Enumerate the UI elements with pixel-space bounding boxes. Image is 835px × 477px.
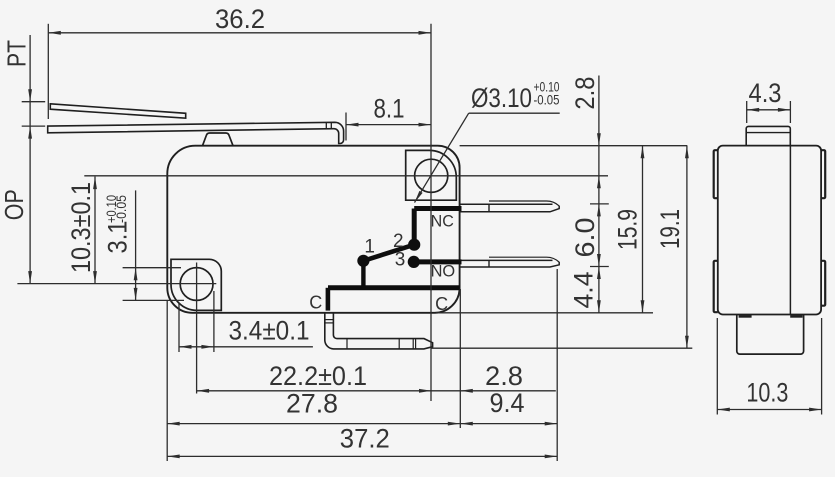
side view plunger cap line <box>746 132 790 134</box>
bottom hole centerline horizontal <box>17 283 216 285</box>
dim 15.9 <box>642 146 644 313</box>
common C terminal bent blade below body <box>325 313 433 349</box>
lever arm free position (upper bar) <box>50 104 185 118</box>
body bottom edge extension right <box>436 312 653 314</box>
svg-text:PT: PT <box>2 40 32 67</box>
svg-text:1: 1 <box>364 237 375 258</box>
circuit NC wire <box>414 206 461 211</box>
dim 3.1 hole <box>135 190 137 300</box>
circuit NO wire <box>414 259 462 264</box>
body top edge extension right <box>460 145 688 147</box>
svg-text:36.2: 36.2 <box>215 4 265 34</box>
circuit node 1 stem wire <box>361 261 365 288</box>
svg-text:C: C <box>435 294 448 314</box>
bottom hole centerline vertical <box>196 263 198 394</box>
side view block mark left <box>739 315 752 318</box>
hole callout leader <box>469 112 560 114</box>
NO terminal blade <box>460 259 553 261</box>
circuit C down-stub wire <box>326 288 331 311</box>
bottom-left mounting boss <box>171 259 221 310</box>
side view right upper rib <box>821 150 825 198</box>
svg-text:-0.05: -0.05 <box>534 93 560 108</box>
NC terminal blade <box>460 203 553 205</box>
dim 4.3 side view <box>747 109 791 111</box>
svg-text:3: 3 <box>395 250 406 271</box>
dim 4.4 <box>598 267 600 313</box>
svg-text:3.4±0.1: 3.4±0.1 <box>229 316 310 346</box>
bottom-left mounting hole <box>180 268 213 301</box>
dim 10.3 side view <box>717 409 821 411</box>
dim 3.4 <box>178 303 180 352</box>
side view body <box>718 146 821 315</box>
dim 37.2 <box>167 455 557 457</box>
svg-text:19.1: 19.1 <box>655 209 685 249</box>
dim 2.8 top-right <box>598 76 600 204</box>
top-right mounting hole <box>415 159 448 192</box>
svg-text:4.4: 4.4 <box>569 272 599 309</box>
switch body outline (front view) <box>167 146 459 313</box>
dim 19.1 <box>686 146 688 349</box>
svg-text:27.8: 27.8 <box>286 389 338 419</box>
svg-text:22.2±0.1: 22.2±0.1 <box>269 361 367 391</box>
lever bend marks <box>325 123 327 129</box>
svg-text:3.1: 3.1 <box>102 221 132 254</box>
dim 22.2 and 2.8 chain <box>197 390 556 392</box>
plunger bump on body top <box>203 133 234 146</box>
dim PT <box>29 35 31 284</box>
lever arm operating position (lower bar with bent tip) <box>48 122 344 143</box>
side view plunger <box>746 126 790 145</box>
svg-text:2.8: 2.8 <box>485 361 523 391</box>
svg-text:37.2: 37.2 <box>340 424 390 454</box>
circuit switch blade wire 1-2 <box>363 245 414 261</box>
side view cover parting line <box>789 146 791 315</box>
svg-text:6.0: 6.0 <box>570 218 600 258</box>
node 3 <box>408 256 420 268</box>
dim 8.1 <box>346 124 431 126</box>
side view block mark right <box>790 315 802 318</box>
node 1 <box>357 255 369 267</box>
svg-text:4.3: 4.3 <box>749 78 782 108</box>
svg-text:10.3: 10.3 <box>746 378 788 408</box>
svg-text:-0.05: -0.05 <box>114 195 129 223</box>
svg-text:NC: NC <box>431 213 454 231</box>
svg-text:8.1: 8.1 <box>374 94 405 124</box>
top hole centerline vertical / 36.2 right extension <box>430 24 432 401</box>
svg-text:9.4: 9.4 <box>490 388 525 418</box>
side view left upper rib <box>714 150 718 198</box>
C terminal bend marks <box>325 319 334 321</box>
svg-text:C: C <box>309 292 322 312</box>
node 2 <box>408 239 420 251</box>
svg-text:15.9: 15.9 <box>613 209 643 250</box>
dim 36.2 <box>48 32 431 34</box>
top hole centerline horizontal <box>84 175 608 177</box>
circuit node 2 riser wire <box>412 209 417 245</box>
svg-text:10.3±0.1: 10.3±0.1 <box>66 182 96 273</box>
side view right lower rib <box>821 261 825 306</box>
bottom extension lines <box>166 300 168 461</box>
svg-text:OP: OP <box>0 189 29 220</box>
dim 6.0 <box>590 203 609 205</box>
circuit common bus wire <box>328 285 460 290</box>
dim 10.3 left <box>94 177 96 284</box>
svg-text:NO: NO <box>431 262 456 280</box>
side view bottom terminal block <box>737 315 804 355</box>
dim 27.8 and 9.4 <box>167 423 557 425</box>
side view left lower rib <box>714 261 718 312</box>
C terminal bottom extension line <box>431 347 693 349</box>
top-right mounting boss <box>406 150 457 200</box>
svg-text:2.8: 2.8 <box>570 77 600 110</box>
svg-text:Ø3.10: Ø3.10 <box>471 83 532 113</box>
